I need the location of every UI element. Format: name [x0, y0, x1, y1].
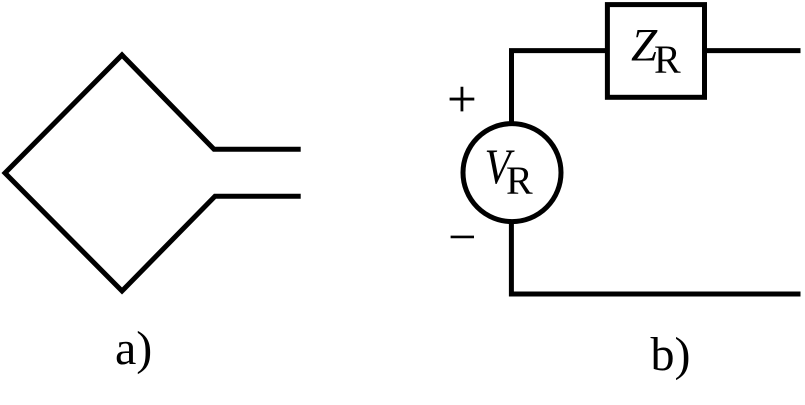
wire from impedance box to right terminal — [707, 48, 801, 53]
value label Z_R — [631, 19, 681, 82]
antenna loop ANT1 with two-wire feed line (figure a) — [5, 55, 301, 291]
wire from source bottom to lower-right terminal — [511, 221, 800, 294]
- polarity mark — [451, 236, 474, 239]
voltage source V_R circle — [463, 124, 561, 222]
value label V_R — [485, 140, 534, 203]
wire from source top to impedance box — [512, 51, 607, 124]
svg-text:b): b) — [651, 328, 691, 381]
+ polarity mark — [450, 87, 475, 112]
impedance Z_R box — [607, 5, 704, 98]
svg-text:R: R — [654, 37, 681, 82]
svg-text:a): a) — [115, 322, 152, 375]
svg-text:R: R — [506, 158, 533, 203]
